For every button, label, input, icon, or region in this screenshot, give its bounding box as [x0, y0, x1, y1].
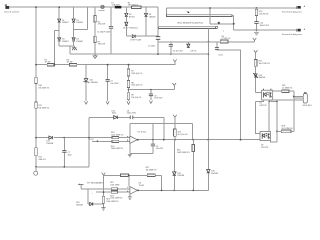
wire line D y=137.3 opamp1 minus feed: [36, 137, 130, 139]
diode D5 on x=126: [125, 13, 135, 18]
node T1 jog: [233, 23, 235, 25]
ground earth aux: [254, 30, 259, 35]
wire left rail x=36: [35, 7, 37, 171]
svg-text:MOD 48-3: MOD 48-3: [303, 105, 312, 107]
diode D6 on x=126: [123, 22, 138, 29]
svg-text:100k 1/8W 5%: 100k 1/8W 5%: [111, 134, 124, 136]
transformer T1 secondary winding bar: [159, 23, 218, 29]
svg-text:V.P. SECUNDARIO: V.P. SECUNDARIO: [87, 181, 104, 184]
wire top mains y=7.2: [9, 6, 158, 8]
svg-text:CNY17F: CNY17F: [261, 147, 269, 149]
svg-text:D9 5%: D9 5%: [191, 50, 197, 52]
wire opamp2 plus y=192.1: [96, 191, 111, 193]
svg-text:10k (2x) 5%: 10k (2x) 5%: [131, 97, 141, 99]
node drain-H: [207, 41, 209, 43]
svg-text:C1 100nF 250V: C1 100nF 250V: [97, 31, 111, 33]
svg-text:1N4007: 1N4007: [149, 16, 156, 18]
optocoupler U3: [260, 132, 271, 149]
resistor R3 on mains wire: [128, 2, 141, 8]
svg-text:100uF 35V: 100uF 35V: [260, 25, 270, 27]
svg-text:1N4007: 1N4007: [76, 22, 83, 24]
wire divider x=128.5: [128, 65, 130, 101]
connector J2: [282, 5, 306, 13]
connector J1 mains plug: [4, 4, 19, 13]
thermistor RT1 on mains wire: [98, 5, 105, 12]
svg-text:1N4007: 1N4007: [62, 41, 69, 43]
resistor R13 opamp1 minus input: [111, 132, 124, 139]
wire drain vertical x=208.3: [207, 28, 209, 139]
fuse F1: [112, 2, 122, 8]
diode D16 leg: [207, 140, 218, 191]
svg-text:10k 1/2W 5%: 10k 1/2W 5%: [259, 63, 271, 65]
ground opamp1: [128, 154, 132, 157]
svg-text:1N4148: 1N4148: [177, 175, 184, 177]
svg-text:CEV-1 EE4020S 90-040079-01: CEV-1 EE4020S 90-040079-01: [177, 23, 203, 25]
svg-text:1k 1/8W 5%: 1k 1/8W 5%: [282, 88, 293, 90]
wire opamp1 output line C y=139.7: [137, 139, 260, 141]
wire main HV vertical x=158: [157, 7, 159, 54]
svg-text:U1 TL061: U1 TL061: [138, 132, 146, 134]
diode D8 on x=146: [145, 13, 156, 18]
wire line E y=166.9: [36, 117, 89, 167]
svg-text:BY255: BY255: [129, 16, 135, 18]
node bridge left top: [58, 6, 60, 8]
wire bridge right AC tap: [74, 7, 88, 30]
wire bridge bottom: [59, 45, 73, 47]
connector J3: [282, 28, 306, 36]
diode D2: [72, 19, 83, 24]
ground chassis below x=95: [93, 54, 97, 58]
buzzer BZ1: [303, 92, 312, 107]
capacitor C1 on x=111: [97, 27, 113, 34]
resistor R14 opamp1 plus input: [111, 140, 124, 150]
svg-text:100n 250V: 100n 250V: [127, 113, 137, 115]
diode D11 on line D: [46, 136, 53, 145]
diode D14 clamp row: [76, 189, 104, 207]
zener D10: [84, 65, 98, 105]
svg-text:TL061: TL061: [139, 185, 144, 187]
wire buzzer feeds: [271, 96, 303, 99]
node drain-A: [207, 53, 209, 55]
wire U2 bottom right bus y=101.5: [271, 100, 277, 102]
svg-text:1M 1/4W 5%: 1M 1/4W 5%: [38, 87, 49, 89]
node divider tap: [128, 89, 130, 91]
net arrow opamp2 minus feed: [78, 181, 111, 188]
wire bridge left column: [58, 7, 60, 46]
net arrow Vc chevron above R15: [173, 115, 177, 118]
wire x=277 vertical: [276, 102, 278, 143]
node aux junction: [209, 7, 211, 9]
op-amp U4: [127, 182, 144, 194]
wire x=146 vertical: [145, 7, 147, 36]
svg-text:D6 BYT 52M (2x): D6 BYT 52M (2x): [123, 28, 138, 30]
wire line B y=64.7: [36, 64, 175, 66]
svg-text:1R 1W: 1R 1W: [45, 62, 51, 64]
resistor R12 on rail: [35, 148, 46, 161]
svg-text:C2 100n: C2 100n: [148, 45, 155, 47]
wire zener chain to U2: [254, 50, 258, 53]
svg-text:100k 1/8W 5%: 100k 1/8W 5%: [106, 201, 119, 203]
wire tap y=89.6: [129, 86, 175, 90]
capacitor C5: [106, 64, 120, 104]
capacitor C4 snubber at x=217: [215, 42, 223, 57]
svg-text:47 2W 5%: 47 2W 5%: [222, 38, 231, 40]
svg-text:D7 BYT 52M: D7 BYT 52M: [130, 40, 141, 42]
svg-text:1N4007: 1N4007: [76, 41, 83, 43]
resistor R20 bias: [121, 174, 148, 187]
node B-tap: [53, 64, 55, 66]
resistor R6 fusible on line B: [67, 59, 77, 66]
ground opamp2: [128, 194, 132, 199]
svg-text:100k 1/8W 5%: 100k 1/8W 5%: [111, 148, 124, 150]
resistor R18 right of U3: [277, 126, 294, 133]
svg-text:1N4148: 1N4148: [76, 204, 83, 206]
node B-rail: [35, 64, 37, 66]
diode D7 horizontal: [130, 35, 141, 42]
svg-text:1N4148: 1N4148: [211, 173, 218, 175]
net arrow feed opamp1 plus: [89, 139, 112, 142]
capacitor C2 on x=158: [148, 37, 160, 48]
wire x=95 vertical: [94, 7, 96, 54]
wire bias/feedback y=175.3: [104, 174, 121, 176]
resistor R24 on chevron stem: [102, 196, 119, 203]
resistor R22 opamp2 minus: [110, 182, 130, 190]
svg-text:430k 5%: 430k 5%: [38, 159, 46, 161]
svg-text:Toma de corriente: Toma de corriente: [4, 10, 19, 13]
wire U3 bottom right jog: [271, 141, 278, 143]
wire line F y=117.3: [89, 116, 164, 118]
wire aux top y=8: [167, 7, 302, 9]
svg-text:1M 1/8W 5%: 1M 1/8W 5%: [146, 169, 157, 171]
resistor R10 on rail: [35, 77, 50, 89]
diode D3: [58, 38, 69, 43]
svg-text:Fuente de la plaq. princ.: Fuente de la plaq. princ.: [282, 10, 303, 13]
transformer T1 primary winding bar: [167, 8, 233, 17]
resistor R7 divider: [127, 69, 142, 76]
terminal TP1: [34, 167, 38, 175]
op-amp U1: [127, 132, 146, 144]
wire T1 pin jog right: [210, 8, 234, 30]
svg-text:100k 1/8W 5%: 100k 1/8W 5%: [110, 198, 123, 200]
resistor R4 on H: [220, 36, 230, 43]
diode D13: [253, 73, 265, 79]
svg-text:100n: 100n: [68, 155, 72, 157]
resistor R21 feedback: [146, 167, 162, 190]
wire U2 bottom left to U3: [256, 100, 264, 134]
resistor R8 divider: [127, 81, 142, 88]
net arrow Vtap: [173, 83, 177, 86]
wire F drop x=163.8: [163, 117, 165, 139]
diode D12 on line F: [112, 110, 118, 119]
svg-text:1N4148: 1N4148: [46, 143, 53, 145]
svg-text:C3 4n7 2kV: C3 4n7 2kV: [173, 50, 184, 52]
svg-text:1N4148: 1N4148: [259, 77, 266, 79]
wire bridge right column: [73, 7, 75, 46]
svg-text:220k (2x) 5%: 220k (2x) 5%: [131, 85, 142, 87]
resistor R2 on x=95: [94, 36, 105, 45]
capacitor C9 below output: [130, 140, 164, 154]
svg-text:4R7 5W 5%: 4R7 5W 5%: [128, 5, 138, 7]
resistor R25 from U2 to buzzer: [273, 85, 294, 131]
node rail-top: [35, 6, 37, 8]
svg-text:220 2W 5%: 220 2W 5%: [259, 14, 269, 16]
resistor R19 aux: [255, 7, 269, 21]
wire to U3 top right: [268, 102, 270, 132]
resistor R5 fusible on line B: [45, 59, 55, 66]
node T1 phase dot: [218, 22, 220, 24]
resistor R16 below line C: [177, 140, 195, 191]
capacitor C3 below H: [169, 42, 184, 55]
ground below R24: [101, 203, 105, 210]
diode D4: [72, 38, 83, 43]
svg-text:2k2 1/8W 5%: 2k2 1/8W 5%: [282, 128, 294, 130]
svg-text:1R 1W: 1R 1W: [67, 62, 73, 64]
ground arrow divider: [127, 101, 130, 104]
svg-text:varistor: varistor: [98, 9, 105, 12]
svg-text:T2A 250V: T2A 250V: [112, 4, 121, 7]
wire aux return y=30.1: [234, 29, 297, 31]
wire feedback top line G y=123.7: [130, 124, 193, 140]
resistor R1 on x=95: [94, 16, 105, 26]
wire snubber horizontal y=36.2: [126, 35, 158, 37]
svg-text:100k 1/8W: 100k 1/8W: [110, 184, 119, 186]
svg-text:1N4007: 1N4007: [62, 22, 69, 24]
svg-text:4k7 (2x) 5%: 4k7 (2x) 5%: [178, 134, 188, 136]
capacitor C6: [149, 89, 163, 104]
resistor R9 divider: [127, 93, 141, 100]
diode D1: [58, 19, 69, 24]
diode D9 below H: [187, 42, 197, 53]
wire bridge left AC tap: [54, 30, 59, 64]
svg-text:7: 7: [223, 31, 224, 33]
svg-text:47uF 50V: 47uF 50V: [154, 98, 163, 100]
diode D15 leg: [173, 140, 184, 191]
resistor R11 on rail: [35, 102, 50, 110]
capacitor C7: [62, 137, 72, 167]
svg-text:10D1: 10D1: [112, 113, 117, 115]
ground earth below bridge: [72, 46, 77, 50]
svg-text:10n 250V: 10n 250V: [110, 83, 119, 85]
svg-text:220k (2x) 5%: 220k (2x) 5%: [131, 73, 142, 75]
optocoupler U2: [259, 89, 272, 107]
svg-text:Fuente de la plaq. princ.: Fuente de la plaq. princ.: [282, 33, 303, 36]
svg-text:470k 1W: 470k 1W: [98, 24, 106, 26]
wire snubber line H y=41.8: [158, 41, 255, 43]
resistor R15: [174, 129, 188, 136]
capacitor C8 on line F: [127, 110, 137, 119]
net arrow VH: [253, 38, 257, 42]
svg-text:100R 1/8W 5%: 100R 1/8W 5%: [177, 152, 190, 154]
svg-text:CNY17F: CNY17F: [259, 105, 267, 107]
wire line A ground bus y=54.1: [70, 46, 208, 54]
svg-text:C4 1n: C4 1n: [218, 55, 223, 57]
capacitor C10 aux: [254, 22, 269, 31]
wire snubber loop to x=240: [217, 50, 241, 140]
svg-text:1M 1/4W 5%: 1M 1/4W 5%: [38, 108, 49, 110]
net arrow VB: [173, 59, 177, 62]
svg-text:1.5KE400: 1.5KE400: [89, 82, 97, 84]
resistor R23 opamp2 plus: [110, 191, 130, 200]
wire x=111 vertical: [110, 7, 112, 54]
net arrow bottom chevron: [102, 173, 106, 176]
wire opamp2 output y=190.4: [137, 189, 207, 191]
svg-text:470k 1W: 470k 1W: [98, 44, 106, 46]
svg-text:10n 63V: 10n 63V: [156, 148, 164, 150]
wire x=126 vertical: [125, 7, 127, 36]
